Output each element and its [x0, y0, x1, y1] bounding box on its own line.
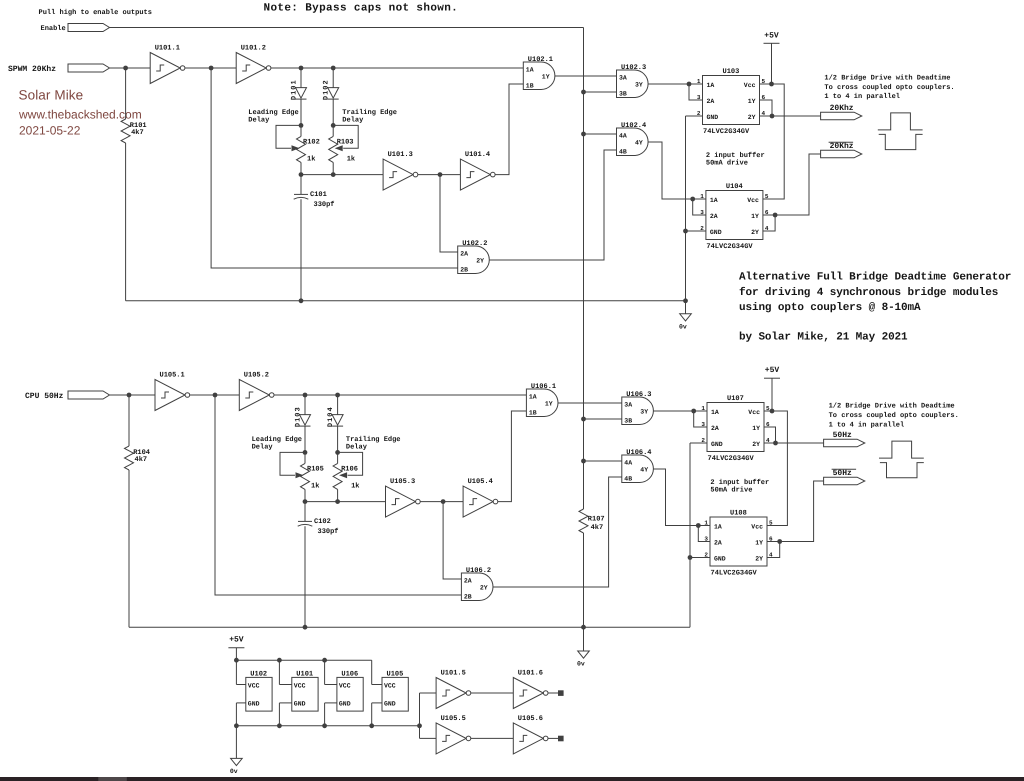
resistor R104 4k7: [125, 446, 134, 470]
svg-text:3B: 3B: [619, 91, 627, 98]
junction pot2: [331, 172, 336, 177]
svg-text:4k7: 4k7: [135, 455, 148, 464]
wire to D-trail: [337, 395, 339, 415]
capacitor C102 330pf: [298, 521, 313, 526]
svg-text:20Khz: 20Khz: [830, 104, 854, 113]
svg-text:0v: 0v: [679, 323, 687, 330]
svg-text:1/2 Bridge Drive with Deadtime: 1/2 Bridge Drive with Deadtime: [829, 402, 955, 411]
svg-text:3A: 3A: [624, 402, 632, 409]
junction CPU 50Hz/pulldown: [127, 393, 132, 398]
svg-text:Vcc: Vcc: [747, 197, 759, 204]
svg-text:3: 3: [701, 421, 705, 428]
wire IC1 1Y to 2Y tie: [764, 427, 776, 443]
capacitor C101 330pf: [294, 194, 309, 199]
svg-text:U105.3: U105.3: [390, 478, 415, 486]
svg-text:Delay: Delay: [342, 116, 364, 125]
wire 2Y to output port: [764, 442, 824, 444]
wire diode to pot: [332, 99, 334, 125]
trimpot R102 1k: [297, 136, 306, 162]
junction SPWM 20Khz/pulldown: [123, 66, 128, 71]
svg-text:1/2 Bridge Drive with Deadtime: 1/2 Bridge Drive with Deadtime: [824, 74, 950, 83]
svg-text:To cross coupled opto couplers: To cross coupled opto couplers.: [829, 411, 959, 420]
trimpot R106 1k: [333, 463, 342, 489]
svg-text:2Y: 2Y: [751, 229, 759, 236]
wire inv3 to inv4: [420, 501, 463, 503]
output port 20Khz inverted: [821, 150, 862, 158]
wire to cap: [300, 175, 302, 195]
wire inv1 out: [190, 394, 215, 396]
wire to inv2: [211, 67, 236, 69]
svg-text:GND: GND: [384, 701, 396, 708]
wire 2Y to 4B: [489, 150, 616, 260]
junction inv3 out / 2A feed: [441, 499, 446, 504]
Vcc pin U106: [325, 684, 337, 686]
junction Vcc/+5V: [769, 82, 774, 87]
wire inv3 to inv4: [418, 174, 461, 176]
svg-text:1: 1: [701, 405, 705, 412]
Vcc drop U102: [235, 660, 237, 684]
+5V supply symbol: [764, 31, 780, 43]
inverter U105.1: [155, 371, 190, 410]
junction C102/ground bus: [303, 625, 308, 630]
wire IC2 1Y: [767, 541, 780, 543]
wire tie to IC2 2A: [693, 199, 706, 215]
inverter U105.4: [463, 478, 498, 517]
svg-text:0v: 0v: [230, 768, 238, 775]
wire Vcc to +5V: [764, 410, 772, 412]
svg-text:SPWM 20Khz: SPWM 20Khz: [8, 65, 56, 74]
wire GND rail to ground: [235, 726, 237, 759]
junction pot top 2: [335, 450, 340, 455]
and-gate U106.4: [622, 449, 654, 482]
wire U105.5 to U105.6: [471, 737, 514, 739]
wire tie to 2A: [689, 84, 703, 100]
wire Enable horizontal: [110, 27, 584, 29]
junction rail U101: [277, 658, 282, 663]
svg-text:GND: GND: [294, 701, 306, 708]
svg-text:C102: C102: [314, 518, 331, 526]
svg-text:2B: 2B: [460, 267, 468, 274]
wire inv2 out to gate 1A: [271, 67, 523, 69]
svg-text:GND: GND: [339, 701, 351, 708]
junction diode 2: [335, 393, 340, 398]
svg-text:using opto couplers @ 8-10mA: using opto couplers @ 8-10mA: [739, 302, 921, 314]
wire Enable bus vertical: [583, 28, 585, 510]
wire enable to 3B: [584, 418, 622, 420]
svg-text:330pf: 330pf: [318, 527, 339, 536]
Vcc rail: [236, 659, 371, 661]
power block U102: [246, 670, 272, 711]
wire inv4 out to gate 1B: [495, 84, 523, 175]
svg-text:U102.2: U102.2: [462, 240, 487, 248]
Vcc drop U106: [324, 660, 326, 684]
svg-text:U106.2: U106.2: [466, 567, 491, 575]
wire enable to 3B: [584, 91, 617, 93]
+5V supply symbol: [764, 366, 780, 378]
svg-text:U102.4: U102.4: [621, 122, 646, 130]
junction Vcc/+5V: [770, 409, 775, 414]
svg-text:1A: 1A: [714, 523, 722, 530]
svg-text:1: 1: [704, 520, 708, 527]
svg-text:1Y: 1Y: [748, 98, 756, 105]
svg-text:4B: 4B: [619, 149, 627, 156]
svg-text:U106.3: U106.3: [626, 391, 651, 399]
svg-text:U107: U107: [727, 395, 744, 403]
wire diode to pot: [304, 426, 306, 452]
and-gate U106.1: [526, 383, 558, 416]
junction GND rail U105: [369, 723, 374, 728]
svg-text:R103: R103: [337, 138, 354, 146]
junction cap/pot1: [299, 172, 304, 177]
svg-text:C101: C101: [310, 191, 327, 199]
svg-text:Delay: Delay: [248, 116, 270, 125]
trimpot R102 1k top lead: [300, 125, 302, 136]
input port CPU 50Hz: [68, 391, 110, 399]
svg-text:2A: 2A: [714, 539, 722, 546]
svg-text:R106: R106: [341, 465, 358, 473]
svg-text:U105.5: U105.5: [441, 715, 466, 723]
wire Vcc to +5V: [760, 83, 772, 85]
svg-text:1k: 1k: [347, 154, 355, 163]
junction inv3 out / 2A feed: [438, 172, 443, 177]
svg-text:1k: 1k: [307, 154, 315, 163]
svg-text:U104: U104: [726, 183, 743, 191]
inverter U101.2: [236, 44, 271, 83]
power block U105: [382, 670, 408, 711]
junction IC2 GND: [688, 555, 693, 560]
svg-text:3: 3: [704, 536, 708, 543]
wire down to R104: [128, 395, 130, 446]
wire pots to inv3: [305, 501, 386, 503]
buffer IC U107 74LVC2G34GV: [701, 395, 770, 463]
wire enable to 4A: [584, 460, 622, 462]
svg-text:U101.6: U101.6: [518, 669, 543, 677]
svg-text:GND: GND: [248, 701, 260, 708]
spare inverter U105.5: [436, 715, 471, 754]
svg-text:Solar Mike: Solar Mike: [19, 88, 84, 103]
svg-text:1A: 1A: [526, 67, 534, 74]
wire IC2 2Y tie: [767, 542, 780, 558]
svg-text:4k7: 4k7: [591, 523, 604, 532]
overline 50Hz: [832, 468, 857, 470]
buffer IC U104 74LVC2G34GV: [700, 183, 769, 251]
svg-text:2B: 2B: [464, 594, 472, 601]
Vcc pin U101: [279, 684, 291, 686]
svg-text:2A: 2A: [460, 251, 468, 258]
and-gate U106.3: [622, 391, 654, 424]
svg-text:4B: 4B: [624, 476, 632, 483]
diode D104: [327, 406, 343, 427]
svg-text:U105: U105: [387, 670, 404, 678]
svg-text:D102: D102: [323, 79, 331, 100]
inverter U101.1: [150, 44, 185, 83]
junction GND rail U106: [322, 723, 327, 728]
and-gate U102.3: [617, 64, 649, 97]
svg-text:1A: 1A: [529, 394, 537, 401]
svg-text:4Y: 4Y: [635, 140, 643, 147]
power block U101: [292, 670, 318, 711]
svg-text:2Y: 2Y: [476, 258, 484, 265]
svg-text:U102: U102: [250, 670, 267, 678]
wire to cap: [304, 502, 306, 522]
junction enable/4A ch2: [581, 459, 586, 464]
wire +5V to Vcc: [771, 43, 773, 84]
wire R101 to ground bus: [125, 143, 127, 301]
svg-text:U101.1: U101.1: [155, 44, 180, 52]
svg-text:VCC: VCC: [339, 682, 351, 689]
svg-text:1k: 1k: [351, 481, 359, 490]
and-gate U102.1: [523, 56, 555, 89]
svg-text:20Khz: 20Khz: [830, 142, 854, 151]
svg-text:U102.1: U102.1: [528, 56, 553, 64]
svg-text:U103: U103: [723, 68, 740, 76]
inverter U105.3: [386, 478, 421, 517]
svg-text:U105.6: U105.6: [518, 715, 543, 723]
wire pots to inv3: [301, 174, 383, 176]
svg-text:1 to 4 in parallel: 1 to 4 in parallel: [824, 92, 900, 101]
spare inverter U105.6: [513, 715, 548, 754]
wire to D-trail: [332, 68, 334, 88]
svg-text:U105.1: U105.1: [160, 371, 185, 379]
output port 50Hz inverted: [824, 477, 865, 485]
wire IC1 GND: [686, 115, 703, 117]
svg-text:VCC: VCC: [248, 682, 260, 689]
junction pot top 1: [303, 450, 308, 455]
inverter U101.4: [460, 151, 495, 190]
svg-text:1 to 4 in parallel: 1 to 4 in parallel: [829, 420, 905, 429]
svg-text:R107: R107: [588, 516, 605, 524]
GND drop U102: [235, 703, 237, 726]
and-gate U106.2: [461, 567, 493, 600]
spare inverter U101.5: [436, 669, 471, 708]
junction cap/pot1: [303, 499, 308, 504]
svg-text:U101: U101: [296, 670, 313, 678]
svg-text:1A: 1A: [711, 409, 719, 416]
svg-text:U105.4: U105.4: [468, 478, 493, 486]
wire diode to pot: [300, 99, 302, 125]
wire to inverted output port: [780, 481, 824, 542]
open end marker U105.6: [559, 736, 564, 741]
junction C101/ground bus: [299, 298, 304, 303]
junction IC2 1Y/2Y: [773, 213, 778, 218]
GND pin U106: [325, 702, 337, 704]
trimpot R105 1k: [301, 463, 310, 489]
svg-text:1: 1: [700, 193, 704, 200]
trimpot R103 1k bottom lead: [332, 162, 334, 174]
and-gate U102.4: [617, 122, 649, 155]
GND pin U101: [279, 702, 291, 704]
svg-text:2A: 2A: [707, 98, 715, 105]
output port 20Khz: [821, 112, 862, 120]
junction diode 1: [299, 66, 304, 71]
wire to inv2: [215, 394, 239, 396]
svg-text:50Hz: 50Hz: [833, 469, 852, 478]
wire to inverter input: [126, 67, 151, 69]
svg-text:Note: Bypass caps not shown.: Note: Bypass caps not shown.: [264, 2, 459, 14]
junction rail U102: [234, 658, 239, 663]
trimpot R103 1k top lead: [332, 125, 334, 136]
GND pin U105: [372, 702, 382, 704]
input port SPWM 20Khz: [68, 64, 110, 72]
diode D102: [323, 79, 339, 100]
svg-text:0v: 0v: [577, 661, 585, 668]
junction IC2 1Y/2Y: [777, 539, 782, 544]
spare inverter U101.6: [513, 669, 548, 708]
wire into IC2 1A: [698, 525, 710, 527]
wire to U101.5 input: [420, 692, 437, 694]
svg-text:U106.4: U106.4: [626, 449, 651, 457]
svg-text:Vcc: Vcc: [748, 409, 760, 416]
wire 3Y to IC1 1A: [648, 83, 689, 85]
svg-text:U105.2: U105.2: [244, 371, 269, 379]
svg-text:for driving 4 synchronous brid: for driving 4 synchronous bridge modules: [739, 286, 998, 299]
junction inv1 out / 2B feed: [209, 66, 214, 71]
wire to inverter input: [129, 394, 155, 396]
svg-text:2Y: 2Y: [755, 555, 763, 562]
wire to D-lead: [304, 395, 306, 415]
svg-text:2Y: 2Y: [752, 441, 760, 448]
trimpot R103 1k: [329, 136, 338, 162]
ground bus channel 1: [126, 300, 686, 302]
svg-text:1Y: 1Y: [755, 539, 763, 546]
svg-text:CPU 50Hz: CPU 50Hz: [25, 392, 64, 401]
svg-text:U101.5: U101.5: [441, 669, 466, 677]
GND drop U106: [324, 703, 326, 726]
svg-text:Vcc: Vcc: [751, 523, 763, 530]
junction GND rail spare inverters: [417, 723, 422, 728]
wire diode to pot: [337, 426, 339, 452]
ground symbol channel 2: [577, 651, 589, 668]
svg-text:Delay: Delay: [252, 443, 274, 452]
junction pot top 2: [331, 123, 336, 128]
wire to gate 2A: [440, 175, 458, 252]
and-gate U102.2: [458, 240, 490, 273]
wire to gate 2A: [443, 502, 461, 579]
svg-text:2A: 2A: [711, 425, 719, 432]
wire to D-lead: [300, 68, 302, 88]
svg-text:U101.3: U101.3: [388, 151, 413, 159]
GND pin U102: [236, 702, 245, 704]
inverter U101.3: [383, 151, 418, 190]
wire into 1A: [689, 83, 703, 85]
svg-text:VCC: VCC: [294, 682, 306, 689]
svg-text:U108: U108: [730, 510, 747, 518]
svg-text:U101.2: U101.2: [241, 44, 266, 52]
svg-text:GND: GND: [711, 441, 723, 448]
ground symbol bottom: [230, 758, 242, 775]
open end marker U101.6: [559, 691, 564, 696]
wire to inverted output port: [775, 154, 821, 215]
svg-text:4k7: 4k7: [131, 128, 144, 137]
wire to gate 2B: [211, 68, 458, 268]
junction pot2: [335, 499, 340, 504]
wire to gate 2B: [215, 395, 461, 595]
trimpot R106 1k top lead: [337, 452, 339, 463]
svg-text:2A: 2A: [710, 213, 718, 220]
buffer IC U103 74LVC2G34GV: [697, 68, 766, 136]
svg-text:330pf: 330pf: [314, 200, 335, 209]
svg-text:+5V: +5V: [765, 366, 780, 375]
svg-text:To cross coupled opto couplers: To cross coupled opto couplers.: [824, 83, 954, 92]
svg-text:1Y: 1Y: [751, 213, 759, 220]
svg-text:74LVC2G34GV: 74LVC2G34GV: [711, 570, 758, 578]
wire 4Y to IC2: [653, 469, 698, 526]
wire down to R101: [125, 68, 127, 119]
wire cap to ground bus: [304, 526, 306, 627]
svg-text:Delay: Delay: [346, 443, 368, 452]
wire Vcc chain to IC2: [767, 411, 787, 526]
junction R107/ground bus: [581, 625, 586, 630]
wire 4Y to IC2: [648, 142, 693, 199]
junction IC1 1Y/2Y: [770, 114, 775, 119]
wire into IC2 1A: [693, 198, 706, 200]
svg-text:2A: 2A: [464, 578, 472, 585]
svg-text:74LVC2G34GV: 74LVC2G34GV: [703, 128, 750, 136]
svg-text:74LVC2G34GV: 74LVC2G34GV: [708, 455, 755, 463]
svg-text:D101: D101: [291, 79, 299, 100]
svg-text:U101.4: U101.4: [465, 151, 490, 159]
wire cap to ground bus: [300, 199, 302, 301]
svg-text:+5V: +5V: [229, 636, 244, 645]
svg-text:R105: R105: [307, 465, 324, 473]
ground column lower: [685, 231, 687, 301]
svg-text:2Y: 2Y: [480, 585, 488, 592]
svg-text:3A: 3A: [619, 75, 627, 82]
bottom window bar: [0, 777, 1024, 781]
junction enable/4A ch1: [581, 132, 586, 137]
trimpot R105 1k bottom lead: [304, 489, 306, 501]
junction pot top 1: [299, 123, 304, 128]
svg-text:U102.3: U102.3: [621, 64, 646, 72]
wire to ground 2: [583, 627, 585, 651]
junction IC1 1A/2A tie: [691, 409, 696, 414]
wire SPWM 20Khz to pulldown junction: [110, 67, 126, 69]
Vcc pin U105: [372, 684, 382, 686]
svg-text:D104: D104: [327, 406, 335, 427]
svg-text:1Y: 1Y: [542, 74, 550, 81]
svg-text:U106.1: U106.1: [531, 383, 556, 391]
svg-text:4A: 4A: [624, 460, 632, 467]
svg-text:1Y: 1Y: [752, 425, 760, 432]
output port 50Hz: [824, 439, 865, 447]
ground column lower: [689, 558, 691, 628]
svg-text:Pull high to enable outputs: Pull high to enable outputs: [39, 8, 152, 17]
spare input tie: [419, 693, 421, 738]
svg-text:1A: 1A: [710, 197, 718, 204]
svg-text:1B: 1B: [526, 83, 534, 90]
svg-text:1k: 1k: [311, 481, 319, 490]
svg-text:2021-05-22: 2021-05-22: [19, 123, 81, 137]
svg-text:Enable: Enable: [41, 24, 66, 33]
stub U101.6 out: [548, 692, 559, 694]
wire tie to 2A: [694, 411, 707, 427]
GND rail: [236, 725, 419, 727]
svg-text:U106: U106: [341, 670, 358, 678]
junction enable/3B ch2: [581, 417, 586, 422]
Vcc drop U105: [371, 660, 373, 684]
svg-text:50mA drive: 50mA drive: [710, 486, 752, 495]
junction IC2 GND: [683, 229, 688, 234]
resistor R107 4k7: [579, 509, 588, 533]
trimpot R106 1k bottom lead: [337, 489, 339, 501]
svg-text:1B: 1B: [529, 410, 537, 417]
svg-text:2Y: 2Y: [748, 114, 756, 121]
junction IC1 1A/2A tie: [687, 82, 692, 87]
junction inv1 out / 2B feed: [213, 393, 218, 398]
svg-text:1: 1: [697, 78, 701, 85]
wire 2Y to 4B: [493, 477, 622, 587]
junction ground bus/column: [683, 298, 688, 303]
